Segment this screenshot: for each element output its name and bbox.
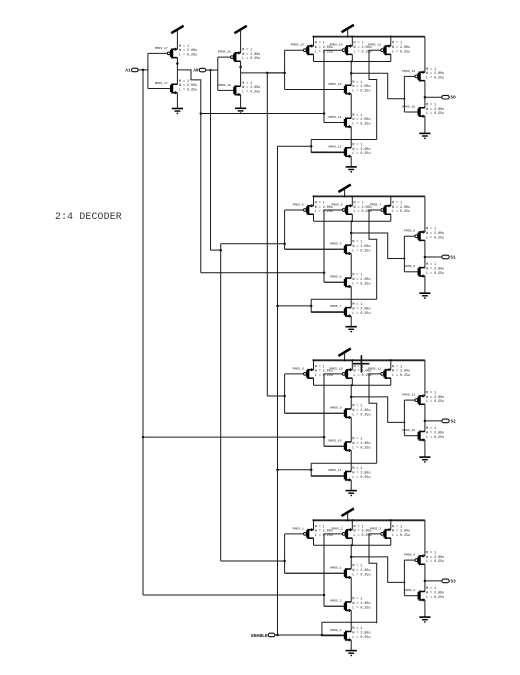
- wire NMOS_7 source to ground: [350, 316, 352, 326]
- svg-text:NMOS_1: NMOS_1: [330, 566, 341, 570]
- value label NMOS_6 W/L: [352, 274, 370, 287]
- wire enable column block 1: [310, 140, 312, 153]
- ground below output inverter block 4: [419, 617, 430, 623]
- svg-text:2:4 DECODER: 2:4 DECODER: [55, 211, 122, 222]
- wire PMOS_1 drain to output bus: [313, 538, 315, 545]
- junction PMOS1 source on rail block 3: [313, 359, 315, 361]
- transistor PMOS_16 output inverter pullup block 1: [402, 69, 425, 82]
- svg-text:NMOS_16: NMOS_16: [402, 104, 415, 108]
- wire NMOS_5 source to NMOS_6 drain: [350, 254, 352, 279]
- svg-text:NMOS_18: NMOS_18: [218, 83, 231, 87]
- junction input2 column block 4: [323, 594, 326, 597]
- svg-text:L = 0.25u: L = 0.25u: [179, 89, 197, 93]
- svg-text:L = 0.25u: L = 0.25u: [392, 374, 410, 378]
- value label PMOS_17 W/L: [179, 45, 197, 58]
- transistor NMOS_1 (NAND pulldown 1) block 4: [285, 566, 352, 580]
- transistor NMOS_16 output inverter pulldown block 1: [402, 104, 425, 118]
- transistor PMOS_13 (NAND pullup 1) block 1: [285, 43, 314, 56]
- transistor NMOS_6 (NAND pulldown 2) block 2: [324, 275, 351, 289]
- transistor PMOS_5 (NAND pullup 1) block 2: [285, 202, 314, 215]
- transistor NMOS_9 (NAND pulldown 1) block 3: [285, 406, 352, 420]
- output pin S1: [442, 255, 449, 259]
- wire PMOS_5 drain to output bus: [313, 214, 315, 221]
- svg-text:M = 1: M = 1: [242, 49, 252, 53]
- wire PMOS_2 source to vdd rail: [351, 520, 353, 529]
- wire net A0B vertical rail: [266, 73, 268, 396]
- svg-text:M = 1: M = 1: [392, 201, 402, 205]
- svg-text:S2: S2: [451, 419, 457, 424]
- wire NAND output bus block 3: [314, 384, 391, 386]
- junction PMOS3 source on rail block 3: [390, 359, 392, 361]
- wire enable to NMOS3 gate block 2: [311, 311, 344, 313]
- junction NAND output tap block 2: [350, 232, 353, 235]
- junction net EN tap for block3: [276, 469, 279, 472]
- junction net A0 at block4 input column: [283, 560, 286, 563]
- wire to output pin S1: [425, 256, 442, 258]
- wire NAND output to inverter block 3: [351, 397, 404, 423]
- wire enable entry block 2: [278, 305, 312, 307]
- svg-text:M = 1: M = 1: [426, 263, 436, 267]
- transistor NMOS_8 output inverter pulldown block 2: [404, 264, 425, 278]
- value label NMOS_2 W/L: [352, 598, 370, 611]
- wire net EN vertical rail: [277, 146, 279, 635]
- value label PMOS_16 W/L: [426, 68, 444, 81]
- wire NMOS_6 source to NMOS_7 drain: [350, 287, 352, 308]
- ground below NAND stack block 3: [346, 491, 357, 497]
- transistor PMOS_18 inverter U2 pullup: [218, 50, 241, 63]
- svg-text:NMOS_10: NMOS_10: [329, 439, 342, 443]
- junction PMOS3 source on rail block 3: [390, 359, 392, 361]
- svg-text:PMOS_12: PMOS_12: [402, 393, 415, 397]
- svg-text:W = 2.00u: W = 2.00u: [392, 370, 410, 374]
- svg-text:M = 1: M = 1: [392, 42, 402, 46]
- value label NMOS_14 W/L: [352, 114, 370, 127]
- junction vdd wire on rail block 1: [347, 36, 349, 38]
- wire NAND output bus block 1: [314, 61, 391, 63]
- vdd rail of gate block 3: [314, 359, 425, 361]
- junction enable column block 2: [310, 305, 313, 308]
- wire inverter pullup source to vdd rail block 4: [424, 520, 426, 556]
- value label PMOS_9 W/L: [315, 365, 333, 378]
- wire inverter U2 input rail: [217, 57, 219, 90]
- junction enable column block 1: [310, 145, 313, 148]
- svg-text:L = 0.25u: L = 0.25u: [426, 272, 444, 276]
- junction PMOS2 source on rail block 3: [351, 359, 353, 361]
- transistor NMOS_4 output inverter pulldown block 4: [404, 588, 425, 602]
- value label PMOS_6 W/L: [354, 201, 372, 214]
- wire NMOS_3 source to ground: [350, 640, 352, 650]
- vdd rail of gate block 2: [314, 195, 425, 197]
- svg-text:M = 1: M = 1: [352, 241, 362, 245]
- junction PMOS1 source on rail block 4: [313, 519, 315, 521]
- wire net A1 vertical rail: [142, 70, 144, 595]
- svg-text:L = 0.25u: L = 0.25u: [426, 77, 444, 81]
- value label NMOS_5 W/L: [352, 241, 370, 254]
- svg-text:W = 2.00u: W = 2.00u: [352, 118, 370, 122]
- wire enable to NMOS3 gate block 3: [311, 475, 344, 477]
- svg-text:NMOS_15: NMOS_15: [329, 144, 342, 148]
- wire enable top branch to PMOS3 gate block 1: [311, 139, 377, 141]
- wire enable top branch to PMOS3 gate block 3: [311, 462, 377, 464]
- junction net A0 jog: [219, 249, 222, 252]
- value label PMOS_7 W/L: [392, 201, 410, 214]
- wire PMOS_10 drain to output bus: [351, 378, 353, 385]
- junction NAND output tap block 3: [350, 396, 353, 399]
- wire input2 to NMOS gate block 3: [324, 445, 345, 447]
- svg-text:L = 0.25u: L = 0.25u: [352, 152, 370, 156]
- wire input2 to NMOS gate block 1: [324, 122, 345, 124]
- junction PMOS3 source on rail block 4: [390, 519, 392, 521]
- junction inverter input block 2: [403, 258, 405, 260]
- power vdd symbol block 4: [342, 509, 354, 521]
- transistor PMOS_10 (NAND pullup 2) block 3: [324, 366, 352, 379]
- wire net A1B from U1 output jog down: [177, 70, 200, 273]
- junction enable column block 3: [310, 469, 313, 472]
- wire PMOS_10 source to vdd rail: [351, 360, 353, 369]
- junction net A0B at block1 input column: [283, 72, 286, 75]
- wire net A0B from U2 output to block1: [241, 72, 285, 74]
- wire NMOS stack drain to bus block 4: [350, 545, 352, 569]
- wire input1 to NMOS1 gate block 3: [285, 412, 345, 414]
- wire inverter output node block 3: [424, 404, 426, 431]
- transistor NMOS_18 inverter U2 pulldown: [218, 83, 241, 97]
- svg-text:NMOS_2: NMOS_2: [330, 599, 341, 603]
- transistor PMOS_3 (NAND pullup 3) block 4: [370, 526, 391, 539]
- wire net A0 feed into block4: [221, 560, 285, 562]
- transistor NMOS_15 (NAND pulldown 3) block 1: [311, 144, 351, 158]
- junction vdd wire on rail block 2: [344, 195, 346, 197]
- svg-text:L = 0.25u: L = 0.25u: [352, 606, 370, 610]
- transistor NMOS_7 (NAND pulldown 3) block 2: [311, 304, 351, 318]
- wire inverter U1 input rail: [147, 53, 149, 88]
- value label PMOS_4 W/L: [426, 552, 444, 565]
- transistor NMOS_5 (NAND pulldown 1) block 2: [285, 242, 352, 256]
- wire net A0B feed into block3: [267, 395, 284, 397]
- svg-text:M = 1: M = 1: [315, 42, 325, 46]
- wire PMOS_11 drain to output bus: [390, 378, 392, 385]
- svg-text:NMOS_14: NMOS_14: [329, 115, 342, 119]
- svg-text:W = 2.00u: W = 2.00u: [354, 530, 372, 534]
- svg-text:NMOS_9: NMOS_9: [330, 406, 341, 410]
- power vdd symbol block 2: [338, 185, 350, 197]
- transistor PMOS_15 (NAND pullup 3) block 1: [368, 43, 391, 56]
- wire enable column block 2: [310, 299, 312, 312]
- wire PMOS_15 source to vdd rail: [390, 37, 392, 46]
- ground below output inverter block 2: [419, 293, 430, 299]
- wire input1 gate column block 2: [284, 210, 286, 249]
- svg-text:NMOS_8: NMOS_8: [404, 264, 415, 268]
- wire NMOS stack drain to bus block 3: [350, 385, 352, 409]
- wire inverter NMOS source to ground block 1: [424, 116, 426, 133]
- wire net A0 jog: [211, 249, 221, 251]
- value label NMOS_11 W/L: [352, 467, 370, 480]
- transistor PMOS_11 (NAND pullup 3) block 3: [368, 366, 391, 379]
- vdd rail of gate block 1: [314, 36, 425, 38]
- svg-text:PMOS_4: PMOS_4: [404, 553, 415, 557]
- svg-text:L = 0.25u: L = 0.25u: [352, 636, 370, 640]
- svg-text:M = 1: M = 1: [426, 68, 436, 72]
- svg-text:M = 1: M = 1: [315, 201, 325, 205]
- wire input3 gate jog block 4: [369, 534, 381, 623]
- junction PMOS3 source on rail block 1: [390, 36, 392, 38]
- transistor NMOS_2 (NAND pulldown 2) block 4: [324, 599, 351, 613]
- value label NMOS_1 W/L: [352, 565, 370, 578]
- junction inverter output block 3: [424, 420, 427, 423]
- wire enable entry block 1: [278, 145, 312, 147]
- value label NMOS_10 W/L: [352, 438, 370, 451]
- value label PMOS_11 W/L: [392, 365, 410, 378]
- wire NAND output to inverter block 2: [351, 233, 404, 259]
- junction PMOS2 source on rail block 4: [351, 519, 353, 521]
- wire inverter input rail block 4: [403, 560, 405, 596]
- wire PMOS_15 drain to output bus: [390, 54, 392, 61]
- svg-text:M = 1: M = 1: [426, 552, 436, 556]
- power vdd symbol for inverter U2: [234, 26, 246, 53]
- svg-text:S1: S1: [451, 256, 457, 261]
- svg-text:S3: S3: [451, 579, 457, 584]
- value label NMOS_3 W/L: [352, 627, 370, 640]
- svg-text:M = 1: M = 1: [354, 201, 364, 205]
- wire input3 gate jog block 2: [369, 210, 381, 299]
- wire inverter U2 output node: [240, 61, 242, 86]
- wire net A0 vertical rail upper: [210, 70, 212, 250]
- svg-text:M = 1: M = 1: [426, 228, 436, 232]
- svg-text:W = 2.00u: W = 2.00u: [352, 85, 370, 89]
- value label NMOS_13 W/L: [352, 81, 370, 94]
- junction enable column block 4: [321, 634, 324, 637]
- wire NMOS_1 source to NMOS_2 drain: [350, 577, 352, 602]
- power vdd symbol for inverter U1: [171, 26, 183, 49]
- value label PMOS_18 W/L: [242, 49, 260, 62]
- svg-text:L = 0.25u: L = 0.25u: [179, 54, 197, 58]
- junction input2 column block 1: [323, 112, 326, 115]
- wire input1 gate column block 1: [284, 50, 286, 89]
- value label NMOS_18 W/L: [242, 82, 260, 95]
- wire inverter pullup source to vdd rail block 3: [424, 360, 426, 396]
- value label PMOS_10 W/L: [354, 365, 372, 378]
- wire input2 to NMOS gate block 2: [324, 281, 345, 283]
- wire NAND output to inverter block 4: [351, 557, 404, 583]
- ground below inverter U1: [172, 109, 183, 115]
- svg-text:W = 2.00u: W = 2.00u: [352, 442, 370, 446]
- svg-text:L = 0.25u: L = 0.25u: [242, 57, 260, 61]
- junction inverter input block 4: [403, 581, 405, 583]
- svg-text:L = 0.25u: L = 0.25u: [352, 90, 370, 94]
- svg-text:NMOS_11: NMOS_11: [329, 468, 342, 472]
- transistor PMOS_14 (NAND pullup 2) block 1: [324, 43, 352, 56]
- wire inverter output node block 1: [424, 81, 426, 108]
- wire enable column block 4: [321, 622, 323, 635]
- junction net A0 at block2 input column: [283, 243, 286, 246]
- junction PMOS1 source on rail block 2: [313, 195, 315, 197]
- value label PMOS_2 W/L: [354, 525, 372, 538]
- junction PMOS2 source on rail block 3: [351, 359, 353, 361]
- wire to output pin S3: [425, 580, 442, 582]
- svg-text:PMOS_8: PMOS_8: [404, 229, 415, 233]
- svg-text:W = 2.00u: W = 2.00u: [315, 530, 333, 534]
- svg-text:PMOS_15: PMOS_15: [368, 43, 381, 47]
- svg-text:PMOS_1: PMOS_1: [293, 526, 304, 530]
- wire PMOS_11 source to vdd rail: [390, 360, 392, 369]
- svg-text:L = 0.25u: L = 0.25u: [426, 400, 444, 404]
- junction NMOS stack on output bus block 2: [351, 220, 353, 222]
- wire enable column block 3: [310, 463, 312, 476]
- wire ENABLE pin to NAND gates: [275, 634, 344, 636]
- svg-text:PMOS_11: PMOS_11: [368, 366, 381, 370]
- svg-text:L = 0.25u: L = 0.25u: [426, 596, 444, 600]
- junction net EN tap for block2: [276, 305, 279, 308]
- wire NMOS_14 source to NMOS_15 drain: [350, 127, 352, 148]
- value label NMOS_4 W/L: [426, 587, 444, 600]
- wire PMOS_13 drain to output bus: [313, 54, 315, 61]
- value label NMOS_9 W/L: [352, 405, 370, 418]
- wire NMOS_15 source to ground: [350, 156, 352, 166]
- junction inverter output block 2: [424, 256, 427, 259]
- wire PMOS_1 source to vdd rail: [313, 520, 315, 529]
- svg-text:NMOS_6: NMOS_6: [330, 275, 341, 279]
- value label NMOS_8 W/L: [426, 263, 444, 276]
- svg-text:M = 1: M = 1: [426, 587, 436, 591]
- junction net A0B at block3 input column: [283, 395, 286, 398]
- junction inverter output block 1: [424, 96, 427, 99]
- wire net A1B feed into block2: [201, 272, 324, 274]
- wire NMOS_13 source to NMOS_14 drain: [350, 94, 352, 119]
- svg-text:M = 1: M = 1: [352, 303, 362, 307]
- wire enable entry block 3: [278, 469, 312, 471]
- value label NMOS_15 W/L: [352, 143, 370, 156]
- junction NAND output tap block 1: [350, 72, 353, 75]
- svg-text:M = 1: M = 1: [242, 82, 252, 86]
- svg-text:L = 0.25u: L = 0.25u: [392, 50, 410, 54]
- svg-text:NMOS_13: NMOS_13: [329, 82, 342, 86]
- svg-text:L = 0.25u: L = 0.25u: [392, 534, 410, 538]
- transistor PMOS_1 (NAND pullup 1) block 4: [285, 526, 314, 539]
- wire inverter output node block 2: [424, 240, 426, 267]
- value label NMOS_7 W/L: [352, 303, 370, 316]
- wire NAND output bus block 4: [314, 544, 391, 546]
- svg-text:PMOS_13: PMOS_13: [291, 43, 304, 47]
- svg-text:PMOS_14: PMOS_14: [330, 43, 343, 47]
- wire PMOS_9 drain to output bus: [313, 378, 315, 385]
- wire PMOS_3 source to vdd rail: [390, 520, 392, 529]
- value label PMOS_5 W/L: [315, 201, 333, 214]
- wire PMOS_14 drain to output bus: [351, 54, 353, 61]
- transistor NMOS_11 (NAND pulldown 3) block 3: [311, 468, 351, 482]
- transistor NMOS_3 (NAND pulldown 3) block 4: [322, 628, 351, 642]
- svg-text:L = 0.25u: L = 0.25u: [426, 112, 444, 116]
- transistor NMOS_12 output inverter pulldown block 3: [402, 428, 425, 442]
- wire inverter U1 output node: [176, 58, 178, 85]
- svg-text:M = 1: M = 1: [426, 392, 436, 396]
- wire NAND output bus block 2: [314, 220, 391, 222]
- wire inverter input rail block 2: [403, 236, 405, 272]
- output pin S3: [442, 579, 449, 583]
- wire A0 pin to inverter U2 input: [206, 69, 218, 71]
- transistor PMOS_2 (NAND pullup 2) block 4: [324, 526, 352, 539]
- wire PMOS_9 source to vdd rail: [313, 360, 315, 369]
- input pin A1: [132, 68, 139, 72]
- wire net A1 feed into block3: [143, 436, 324, 438]
- value label PMOS_8 W/L: [426, 228, 444, 241]
- wire NMOS_9 source to NMOS_10 drain: [350, 417, 352, 442]
- wire inverter NMOS source to ground block 4: [424, 600, 426, 617]
- wire input2 gate column block 1: [323, 50, 325, 122]
- junction node A1B at inverter U1 output: [176, 62, 179, 65]
- value label PMOS_3 W/L: [392, 525, 410, 538]
- junction NMOS stack on output bus block 4: [351, 544, 353, 546]
- wire input1 to NMOS1 gate block 4: [285, 572, 345, 574]
- ground below NAND stack block 2: [346, 327, 357, 333]
- wire PMOS_3 drain to output bus: [390, 538, 392, 545]
- svg-text:L = 0.25u: L = 0.25u: [352, 123, 370, 127]
- junction input2 column block 3: [323, 436, 326, 439]
- svg-text:M = 1: M = 1: [352, 565, 362, 569]
- svg-text:L = 0.25u: L = 0.25u: [352, 249, 370, 253]
- transistor PMOS_17 inverter U1 pullup: [148, 46, 178, 59]
- input pin A0: [199, 68, 206, 72]
- wire enable top branch to PMOS3 gate block 2: [311, 298, 377, 300]
- value label PMOS_15 W/L: [392, 42, 410, 55]
- value label NMOS_17 W/L: [179, 80, 197, 93]
- transistor NMOS_14 (NAND pulldown 2) block 1: [324, 115, 351, 128]
- svg-text:PMOS_18: PMOS_18: [218, 50, 231, 54]
- svg-text:NMOS_12: NMOS_12: [402, 428, 415, 432]
- junction PMOS3 source on rail block 2: [390, 195, 392, 197]
- junction node A0: [209, 69, 212, 72]
- svg-text:PMOS_7: PMOS_7: [370, 202, 381, 206]
- wire net A0 vertical rail lower: [220, 244, 222, 561]
- svg-text:PMOS_5: PMOS_5: [293, 202, 304, 206]
- transistor PMOS_7 (NAND pullup 3) block 2: [370, 202, 391, 215]
- svg-text:W = 2.00u: W = 2.00u: [392, 530, 410, 534]
- svg-text:PMOS_2: PMOS_2: [331, 526, 342, 530]
- output pin S0: [442, 95, 449, 99]
- wire net A1 feed into block4: [143, 594, 324, 596]
- wire input2 to NMOS gate block 4: [324, 605, 345, 607]
- svg-text:M = 1: M = 1: [354, 42, 364, 46]
- svg-text:L = 0.25u: L = 0.25u: [426, 236, 444, 240]
- svg-text:L = 0.25u: L = 0.25u: [352, 476, 370, 480]
- junction PMOS3 source on rail block 2: [390, 195, 392, 197]
- ground below output inverter block 1: [419, 133, 430, 139]
- svg-text:W = 2.00u: W = 2.00u: [352, 409, 370, 413]
- junction node A0B rail tap: [266, 72, 269, 75]
- svg-text:PMOS_10: PMOS_10: [330, 366, 343, 370]
- svg-text:M = 1: M = 1: [352, 274, 362, 278]
- transistor PMOS_4 output inverter pullup block 4: [404, 553, 425, 566]
- svg-text:L = 0.25u: L = 0.25u: [242, 91, 260, 95]
- wire to output pin S0: [425, 96, 442, 98]
- junction PMOS1 source on rail block 2: [313, 195, 315, 197]
- wire PMOS_14 source to vdd rail: [351, 37, 353, 46]
- svg-text:L = 0.25u: L = 0.25u: [352, 446, 370, 450]
- wire to output pin S2: [425, 420, 442, 422]
- svg-text:M = 1: M = 1: [426, 103, 436, 107]
- value label PMOS_12 W/L: [426, 392, 444, 405]
- junction PMOS2 source on rail block 4: [351, 519, 353, 521]
- wire input2 gate column block 3: [323, 374, 325, 446]
- svg-text:M = 1: M = 1: [352, 598, 362, 602]
- wire inverter U1 NMOS source to ground: [176, 93, 178, 108]
- junction PMOS1 source on rail block 3: [313, 359, 315, 361]
- svg-text:S0: S0: [451, 96, 457, 101]
- junction NMOS stack on output bus block 1: [351, 60, 353, 62]
- net flag cross on vdd rail block 3: [353, 355, 370, 372]
- input pin ENABLE: [268, 633, 275, 637]
- svg-text:NMOS_7: NMOS_7: [330, 304, 341, 308]
- power vdd symbol block 1: [342, 25, 354, 37]
- wire inverter input rail block 1: [403, 76, 405, 112]
